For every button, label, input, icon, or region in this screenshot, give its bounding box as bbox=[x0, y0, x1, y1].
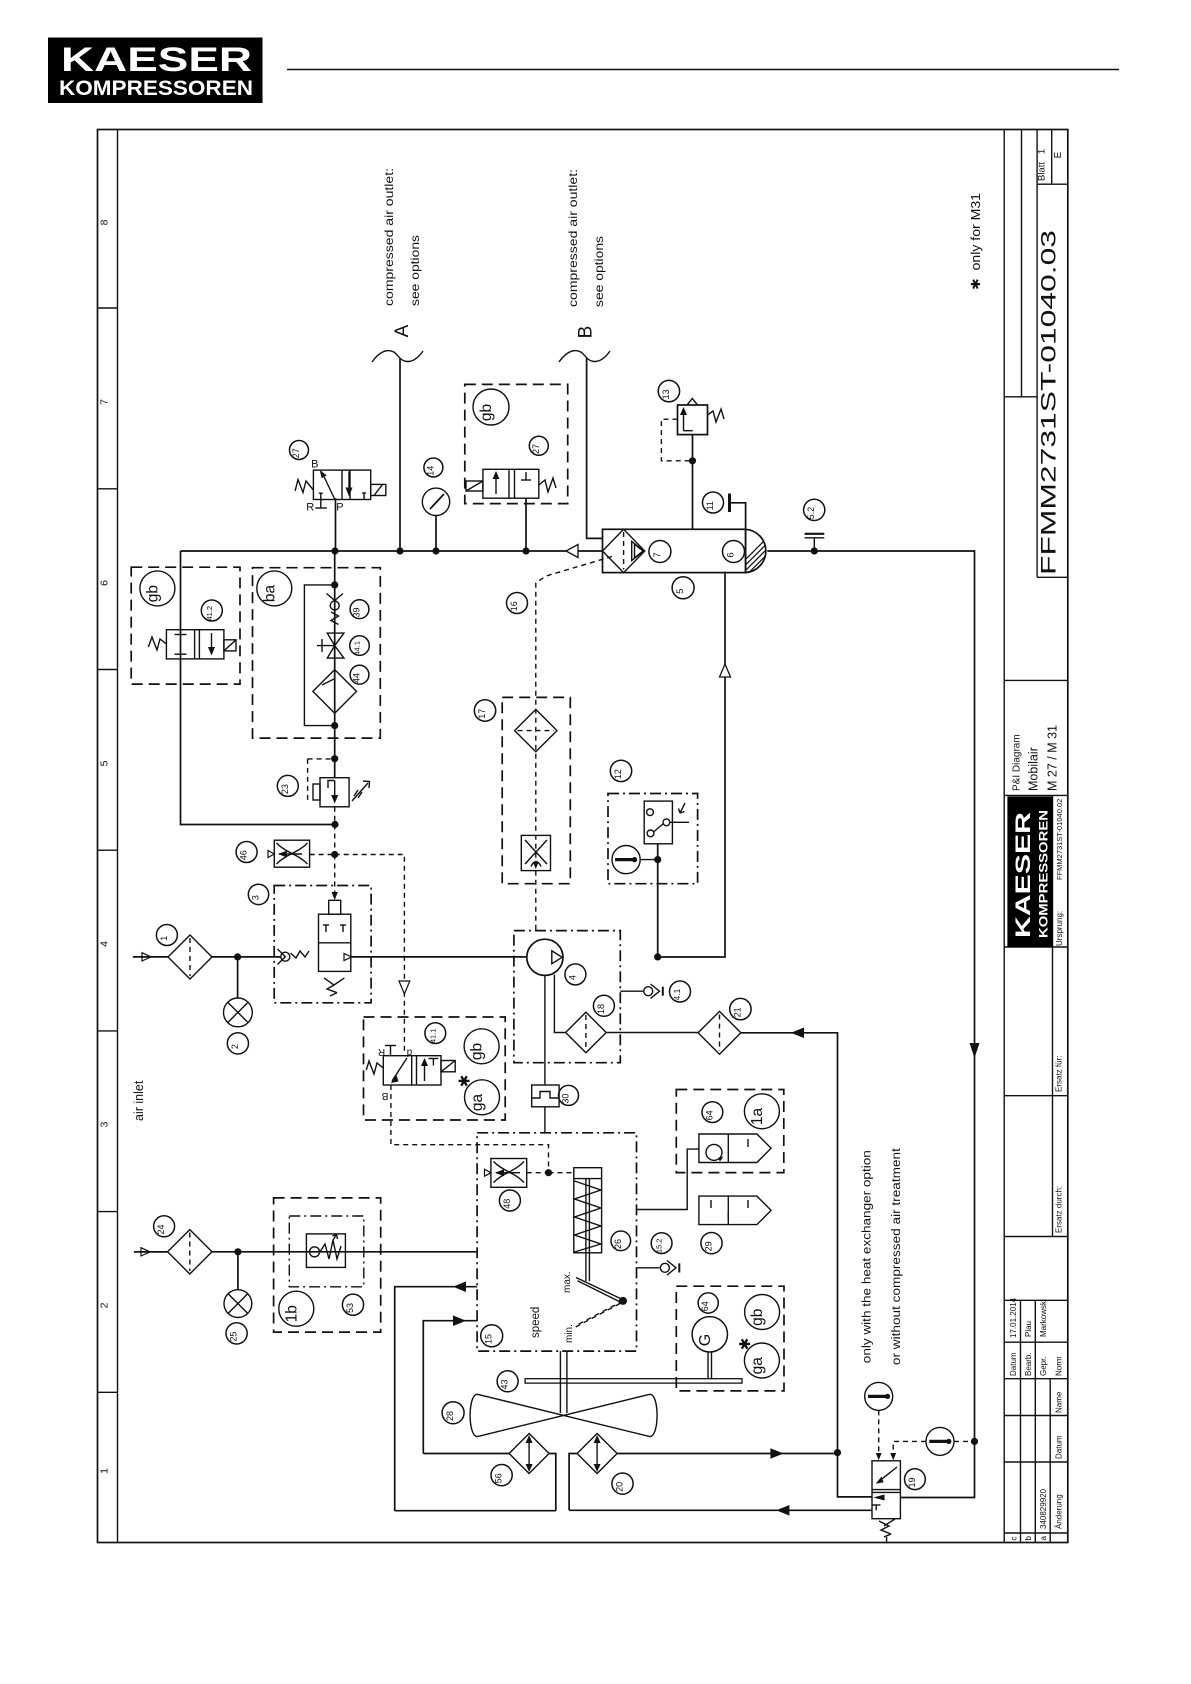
wire gauge 14 stem bbox=[435, 516, 437, 552]
option box gb (left, valve 41.2) bbox=[131, 567, 240, 684]
svg-text:P&I Diagram: P&I Diagram bbox=[1012, 734, 1023, 791]
frame strip tick bbox=[98, 1030, 118, 1032]
svg-text:1a: 1a bbox=[749, 1108, 766, 1126]
svg-text:KAESER: KAESER bbox=[1012, 812, 1035, 938]
svg-text:gb: gb bbox=[144, 585, 161, 602]
frame strip tick bbox=[98, 1391, 118, 1393]
wire ba branch vertical bbox=[334, 551, 336, 778]
svg-text:41.2: 41.2 bbox=[205, 606, 214, 621]
check valve 39 bbox=[327, 594, 344, 625]
balloon 30 bbox=[559, 1085, 579, 1105]
svg-text:44: 44 bbox=[352, 673, 362, 683]
balloon 4.1 bbox=[670, 981, 691, 1002]
svg-text:64: 64 bbox=[704, 1110, 714, 1120]
svg-text:Bearb.: Bearb. bbox=[1024, 1352, 1033, 1376]
svg-text:5: 5 bbox=[675, 589, 686, 594]
balloon 64 bbox=[702, 1102, 723, 1123]
svg-text:Name: Name bbox=[1055, 1391, 1064, 1413]
svg-text:23: 23 bbox=[280, 784, 290, 794]
frame strip tick bbox=[98, 669, 118, 671]
svg-text:4: 4 bbox=[567, 975, 577, 980]
drain check valve 15.2 bbox=[637, 1261, 680, 1276]
KAESER logo header bbox=[48, 38, 263, 104]
balloon 44.1 bbox=[350, 636, 370, 656]
relief valve 13 bbox=[678, 399, 725, 435]
svg-text:a: a bbox=[1039, 1536, 1048, 1541]
svg-text:ga: ga bbox=[749, 1357, 766, 1375]
junction dots on main line bbox=[331, 547, 338, 554]
balloon gb (generator box) bbox=[745, 1295, 780, 1330]
fan drive shaft bbox=[559, 1351, 561, 1413]
frame strip tick bbox=[98, 1211, 118, 1213]
balloon gb (top box) bbox=[473, 389, 509, 425]
air filter 24 (diamond) bbox=[168, 1230, 212, 1274]
balloon 1 bbox=[156, 925, 177, 946]
balloon 18 bbox=[593, 995, 614, 1016]
wire oil line into valve 19 bbox=[900, 1440, 974, 1497]
svg-text:1b: 1b bbox=[283, 1305, 300, 1322]
svg-text:2: 2 bbox=[99, 1302, 111, 1308]
svg-text:c: c bbox=[1010, 1537, 1019, 1541]
balloon 53 bbox=[342, 1294, 363, 1315]
valve 27 (3/2 solenoid valve, left) bbox=[295, 470, 386, 508]
svg-text:4: 4 bbox=[99, 941, 111, 947]
wire oil line from tank bbox=[767, 551, 974, 1440]
svg-text:✱: ✱ bbox=[457, 1075, 474, 1088]
flame arrestor 53 bbox=[306, 1234, 345, 1268]
filter 21 (diamond) bbox=[698, 1011, 741, 1054]
check valve at inlet of 3 bbox=[278, 949, 310, 965]
plugged port 5.2 bbox=[805, 534, 825, 551]
wire valve 27b to main line bbox=[525, 498, 527, 551]
svg-text:Gepr.: Gepr. bbox=[1039, 1356, 1048, 1376]
svg-text:R: R bbox=[378, 1046, 385, 1057]
oil separator 18 (diamond) bbox=[566, 1012, 607, 1053]
pipe break symbol A bbox=[372, 351, 423, 362]
wire ba bypass loop bbox=[304, 585, 334, 726]
flow arrow down (open) on pilot bbox=[399, 981, 410, 994]
blow-off valve 2 bbox=[237, 957, 239, 998]
balloon 64 (generator box) bbox=[698, 1293, 718, 1313]
restrictor 48 bbox=[485, 1159, 527, 1188]
svg-text:27: 27 bbox=[291, 448, 301, 458]
option box 1a (oil filter 64) bbox=[676, 1090, 784, 1173]
svg-text:24: 24 bbox=[156, 1225, 166, 1235]
inlet valve assembly 3 (dash-dot box) bbox=[274, 886, 371, 1003]
svg-text:max.: max. bbox=[562, 1271, 573, 1293]
svg-text:see options: see options bbox=[408, 235, 422, 306]
svg-text:gb: gb bbox=[749, 1309, 766, 1326]
svg-text:ba: ba bbox=[261, 585, 278, 603]
compressor airend 4 bbox=[527, 939, 563, 975]
balloon 24 bbox=[154, 1216, 175, 1237]
left cooler duct box bbox=[395, 1454, 556, 1511]
balloon 46 bbox=[236, 842, 257, 863]
svg-text:15.2: 15.2 bbox=[655, 1238, 664, 1253]
fan 28 bbox=[470, 1394, 657, 1436]
wire compressor to oil separator 18 bbox=[554, 975, 565, 1033]
balloon gb bbox=[464, 1029, 499, 1064]
title block outline bbox=[1004, 130, 1068, 1543]
inlet valve 3 body bbox=[319, 900, 352, 996]
svg-text:P: P bbox=[336, 502, 343, 514]
filter 44 (diamond) bbox=[313, 670, 357, 714]
balloon ga (generator box) bbox=[744, 1343, 779, 1378]
pilot line B-port to speed controller bbox=[391, 1085, 549, 1173]
svg-text:21: 21 bbox=[732, 1007, 742, 1017]
shut-off valve 44.1 bbox=[317, 633, 344, 658]
balloon 15 bbox=[481, 1325, 503, 1347]
frame strip tick bbox=[98, 307, 118, 309]
generator G bbox=[692, 1317, 727, 1352]
separator cartridge 29 bbox=[699, 1196, 771, 1225]
balloon 19 bbox=[905, 1469, 926, 1490]
generator shaft bbox=[707, 1352, 709, 1379]
svg-text:compressed air outlet:: compressed air outlet: bbox=[566, 169, 580, 307]
svg-text:17: 17 bbox=[477, 709, 487, 719]
wire B outlet bbox=[587, 358, 603, 538]
svg-text:A: A bbox=[392, 324, 413, 337]
wire valve 27 to main line bbox=[335, 498, 337, 551]
frame strip tick bbox=[98, 488, 118, 490]
svg-text:7: 7 bbox=[99, 399, 111, 405]
balloon 27 (gb box) bbox=[529, 436, 548, 455]
thermostatic valve 19 bbox=[872, 1461, 900, 1542]
flow arrow left on air line bbox=[791, 1028, 804, 1039]
balloon 25 bbox=[226, 1323, 247, 1344]
balloon 2 bbox=[227, 1033, 248, 1054]
aftercooler 20 (diamond) bbox=[577, 1434, 617, 1474]
wire air line to thermo valve bbox=[838, 1453, 873, 1497]
air inlet arrow 2 bbox=[141, 1248, 150, 1256]
valve 41.1 (3/2 solenoid) bbox=[366, 1046, 455, 1086]
balloon 27 bbox=[290, 441, 309, 460]
balloon 41.1 bbox=[425, 1023, 446, 1044]
wire compressor discharge to tank bottom bbox=[658, 572, 725, 957]
wire valve 3 to compressor bbox=[351, 956, 527, 958]
svg-text:only with the heat exchanger o: only with the heat exchanger option bbox=[862, 1150, 874, 1363]
svg-text:R: R bbox=[306, 502, 314, 514]
svg-text:1: 1 bbox=[159, 936, 169, 941]
svg-text:M 27 / M 31: M 27 / M 31 bbox=[1046, 725, 1060, 791]
air filter 1 (diamond) bbox=[168, 935, 212, 979]
svg-text:340829920: 340829920 bbox=[1039, 1488, 1048, 1529]
svg-text:53: 53 bbox=[345, 1303, 355, 1313]
svg-text:28: 28 bbox=[445, 1411, 455, 1421]
svg-text:speed: speed bbox=[530, 1307, 542, 1338]
nozzle 46 (vent restrictor) bbox=[268, 840, 310, 867]
speed lever bbox=[575, 1278, 627, 1328]
wire left control branch down to regulator outlet bbox=[181, 551, 336, 825]
svg-text:25: 25 bbox=[229, 1332, 239, 1342]
svg-text:KOMPRESSOREN: KOMPRESSOREN bbox=[59, 76, 253, 100]
wire separator 18 to filter 21 bbox=[606, 1032, 698, 1034]
balloon 15.2 bbox=[651, 1233, 672, 1254]
wire filter 1 to valve 3 bbox=[212, 956, 281, 958]
flow arrow into main line (open, pointing left) bbox=[566, 545, 578, 558]
svg-text:Mobilair: Mobilair bbox=[1027, 747, 1041, 791]
filter box 17 (dashed) bbox=[502, 697, 570, 883]
balloon 39 bbox=[350, 600, 369, 619]
balloon 13 bbox=[658, 380, 679, 401]
option box gb (top) bbox=[465, 384, 568, 503]
svg-text:Norm: Norm bbox=[1055, 1356, 1064, 1376]
svg-text:8: 8 bbox=[99, 219, 111, 225]
svg-text:Datum: Datum bbox=[1055, 1435, 1064, 1459]
thermometer 2 (oil) bbox=[926, 1427, 954, 1455]
svg-text:30: 30 bbox=[561, 1094, 571, 1104]
balloon ba bbox=[257, 571, 292, 606]
pilot line down to inlet valve 3 bbox=[334, 855, 336, 899]
svg-text:13: 13 bbox=[661, 389, 671, 399]
wire oil filter inlet bbox=[637, 1149, 699, 1209]
frame number strip line bbox=[117, 130, 119, 1543]
compressor unit box (dash-dot) bbox=[514, 931, 620, 1063]
balloon ga bbox=[465, 1080, 500, 1115]
svg-text:Plau: Plau bbox=[1024, 1321, 1033, 1337]
control line 16 (dashed) bbox=[536, 557, 612, 931]
title block KAESER logo bbox=[1007, 796, 1052, 947]
balloon 12 bbox=[610, 760, 631, 781]
gauge in 12 bbox=[612, 846, 640, 874]
thermometer (fan control) bbox=[865, 1382, 893, 1410]
balloon 29 bbox=[701, 1233, 722, 1254]
svg-text:min.: min. bbox=[564, 1324, 575, 1343]
wire blow-off line to fan duct bbox=[395, 1287, 477, 1511]
balloon 17 bbox=[474, 700, 495, 721]
svg-text:2: 2 bbox=[230, 1044, 240, 1049]
svg-text:Markowski: Markowski bbox=[1039, 1299, 1048, 1337]
separator element 7 (diamond in tank) bbox=[603, 529, 645, 572]
svg-text:20: 20 bbox=[615, 1482, 625, 1492]
pilot line regulator to nozzle junction bbox=[334, 807, 336, 825]
balloon 23 bbox=[277, 775, 298, 796]
svg-text:56: 56 bbox=[494, 1473, 504, 1483]
air inlet arrow 1 bbox=[142, 953, 151, 961]
wire relief 13 to tank bbox=[692, 435, 694, 530]
svg-text:19: 19 bbox=[907, 1477, 917, 1487]
svg-text:41.1: 41.1 bbox=[428, 1028, 437, 1043]
svg-text:Änderung: Änderung bbox=[1055, 1494, 1064, 1529]
svg-text:Datum: Datum bbox=[1009, 1352, 1018, 1376]
svg-text:KOMPRESSOREN: KOMPRESSOREN bbox=[1037, 810, 1051, 938]
balloon 56 bbox=[491, 1465, 512, 1486]
balloon 20 bbox=[612, 1473, 633, 1494]
svg-text:18: 18 bbox=[596, 1004, 606, 1014]
header rule line bbox=[287, 69, 1119, 71]
wire filter 21 to cooler drop bbox=[741, 1033, 838, 1453]
svg-text:E: E bbox=[1053, 151, 1064, 158]
balloon 26 bbox=[611, 1231, 631, 1251]
svg-text:4.1: 4.1 bbox=[672, 988, 682, 1000]
svg-text:6: 6 bbox=[726, 552, 737, 557]
svg-text:B: B bbox=[381, 1090, 388, 1101]
svg-text:39: 39 bbox=[352, 607, 362, 617]
switch element bbox=[644, 801, 689, 844]
valve 41.2 (2/2 solenoid) bbox=[148, 630, 236, 659]
svg-text:46: 46 bbox=[239, 850, 249, 860]
balloon 21 bbox=[730, 998, 751, 1019]
svg-text:see options: see options bbox=[592, 236, 606, 307]
svg-text:Ursprung:: Ursprung: bbox=[1055, 911, 1064, 946]
separator cartridge (triangle) bbox=[632, 541, 644, 560]
svg-text:FFMM2731ST-01040.02: FFMM2731ST-01040.02 bbox=[1055, 799, 1064, 880]
pilot line relief 13 (dashed) bbox=[661, 419, 692, 461]
svg-text:d: d bbox=[407, 1047, 413, 1058]
svg-text:3: 3 bbox=[99, 1121, 111, 1127]
svg-text:G: G bbox=[697, 1334, 714, 1346]
svg-text:air inlet: air inlet bbox=[132, 1080, 146, 1121]
pipe break symbol B bbox=[559, 351, 610, 362]
balloon 4 bbox=[565, 964, 586, 985]
balloon 44 bbox=[350, 665, 369, 684]
balloon 48 bbox=[499, 1190, 520, 1211]
option box ga/gb (valve 41.1) bbox=[364, 1017, 506, 1120]
dashed pilot box for 23 bbox=[308, 759, 335, 800]
svg-text:43: 43 bbox=[500, 1380, 510, 1390]
balloon 14 bbox=[424, 458, 443, 477]
pressure switch 12 box (dash-dot) bbox=[608, 794, 698, 884]
option box ga/gb/64 (generator) bbox=[676, 1286, 784, 1391]
pilot line junction to 46 and to valve 41.1 bbox=[310, 854, 335, 856]
svg-text:b: b bbox=[1024, 1536, 1033, 1541]
balloon gb (left box) bbox=[140, 571, 175, 606]
right cooler duct + aftercooler line bbox=[569, 1454, 837, 1511]
wire A outlet bbox=[399, 358, 401, 551]
balloon 7 bbox=[649, 541, 671, 563]
svg-text:27: 27 bbox=[531, 444, 541, 454]
svg-text:KAESER: KAESER bbox=[61, 41, 252, 79]
wire cooling return line bbox=[423, 1321, 477, 1454]
valve 27 (3/2 solenoid valve, in gb box) bbox=[466, 469, 556, 498]
svg-text:Ersatz für:: Ersatz für: bbox=[1055, 1056, 1064, 1092]
scavenge check valve 4.1 bbox=[620, 984, 663, 998]
svg-text:1: 1 bbox=[99, 1468, 111, 1474]
balloon 5.2 bbox=[804, 499, 825, 520]
speed control box (dash-dot) bbox=[477, 1133, 636, 1351]
svg-text:16: 16 bbox=[509, 601, 519, 611]
svg-text:15: 15 bbox=[484, 1334, 494, 1344]
svg-text:7: 7 bbox=[652, 552, 663, 557]
flow arrows on cooler lines bbox=[770, 1448, 783, 1459]
filter 17 (diamond) bbox=[515, 709, 557, 751]
balloon 5 bbox=[672, 577, 694, 599]
frame strip tick bbox=[98, 849, 118, 851]
flow arrow up (open) bbox=[720, 664, 731, 677]
minimum pressure check valve 11 bbox=[730, 494, 746, 530]
svg-text:ga: ga bbox=[469, 1094, 486, 1112]
blow-off valve 25 bbox=[237, 1252, 239, 1290]
balloon 43 bbox=[497, 1371, 518, 1392]
svg-text:64: 64 bbox=[700, 1301, 710, 1311]
svg-text:B: B bbox=[311, 459, 318, 471]
separator tank 5 (vessel) bbox=[603, 529, 817, 577]
svg-text:Blatt 1: Blatt 1 bbox=[1037, 149, 1048, 181]
balloon 16 bbox=[507, 593, 528, 614]
svg-text:gb: gb bbox=[478, 404, 495, 421]
svg-text:✱: ✱ bbox=[737, 1338, 754, 1351]
wire filter 24 to engine box bbox=[212, 1251, 477, 1253]
balloon 6 bbox=[723, 541, 745, 563]
svg-text:gb: gb bbox=[469, 1043, 486, 1060]
speed cylinder 26 bbox=[574, 1168, 602, 1282]
flow arrow down on oil line bbox=[970, 1043, 980, 1058]
balloon 1a bbox=[744, 1094, 779, 1129]
svg-text:26: 26 bbox=[613, 1239, 623, 1249]
svg-text:✱ only for M31: ✱ only for M31 bbox=[969, 193, 983, 290]
svg-text:3: 3 bbox=[251, 895, 261, 900]
balloon 11 bbox=[703, 492, 724, 513]
svg-text:or without compressed air trea: or without compressed air treatment bbox=[891, 1147, 903, 1365]
svg-text:48: 48 bbox=[502, 1199, 512, 1209]
svg-text:14: 14 bbox=[425, 466, 435, 476]
wire compressor to speed control rod bbox=[544, 975, 546, 1085]
svg-text:B: B bbox=[576, 326, 597, 339]
water drain restrictor in 17 bbox=[521, 835, 550, 870]
wire main delivery line bbox=[181, 550, 570, 552]
oil cooler 56 (diamond) bbox=[509, 1434, 549, 1474]
balloon 28 bbox=[442, 1402, 464, 1424]
wire main line junction up to pressure switch bbox=[657, 844, 659, 957]
svg-text:17.01.2014: 17.01.2014 bbox=[1009, 1297, 1018, 1338]
svg-text:29: 29 bbox=[704, 1241, 714, 1251]
wire rod 30 to speed control box bbox=[544, 1107, 546, 1133]
svg-text:FFMM2731ST-01040.03: FFMM2731ST-01040.03 bbox=[1037, 230, 1061, 575]
svg-text:compressed air outlet:: compressed air outlet: bbox=[382, 168, 396, 306]
drive belt bar 43 bbox=[525, 1379, 742, 1383]
oil filter 64 (cartridge) bbox=[699, 1134, 771, 1163]
balloon 1b bbox=[279, 1291, 314, 1326]
option box ba bbox=[253, 568, 381, 738]
svg-text:6: 6 bbox=[99, 580, 111, 586]
svg-text:11: 11 bbox=[705, 501, 715, 510]
svg-text:5.2: 5.2 bbox=[806, 507, 816, 520]
option box 1b bbox=[274, 1198, 381, 1332]
pressure gauge 14 bbox=[422, 488, 449, 515]
svg-text:5: 5 bbox=[99, 760, 111, 766]
pressure regulator 23 bbox=[313, 778, 370, 807]
svg-text:44.1: 44.1 bbox=[353, 641, 362, 656]
linkage item 30 bbox=[532, 1085, 559, 1107]
svg-text:Ersatz durch:: Ersatz durch: bbox=[1055, 1186, 1064, 1233]
balloon 3 bbox=[248, 884, 268, 904]
drawing frame border bbox=[98, 130, 1068, 1543]
balloon 41.2 bbox=[201, 600, 222, 621]
svg-text:12: 12 bbox=[613, 769, 623, 779]
pilot dashed 48 to junction bbox=[527, 1172, 549, 1174]
